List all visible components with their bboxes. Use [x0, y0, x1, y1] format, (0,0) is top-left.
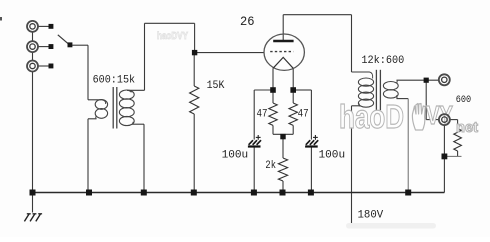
svg-text:100u: 100u — [222, 150, 249, 162]
svg-text:12k:600: 12k:600 — [361, 55, 404, 67]
svg-text:26: 26 — [240, 15, 255, 29]
svg-text:2k: 2k — [265, 160, 276, 172]
svg-text:15K: 15K — [207, 80, 225, 92]
svg-text:180V: 180V — [358, 210, 384, 222]
svg-text:600:15k: 600:15k — [93, 75, 136, 87]
svg-text:600: 600 — [456, 94, 471, 106]
svg-text:net: net — [456, 119, 478, 136]
svg-text:VY: VY — [426, 100, 453, 130]
svg-text:47: 47 — [257, 108, 268, 120]
svg-text:haoD: haoD — [339, 98, 404, 135]
svg-text:haoDVY: haoDVY — [157, 30, 188, 42]
svg-text:47: 47 — [298, 108, 309, 120]
svg-text:100u: 100u — [319, 150, 346, 162]
